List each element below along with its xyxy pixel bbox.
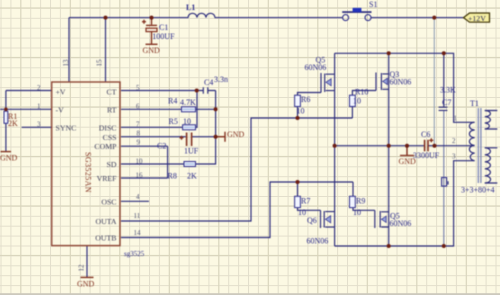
transformer T1 primary winding xyxy=(469,122,474,160)
wire R6 gate path xyxy=(298,93,322,96)
wire R5 bend xyxy=(196,91,198,128)
junction C1 top xyxy=(150,16,154,20)
svg-text:14: 14 xyxy=(134,229,142,237)
junction CT node xyxy=(195,89,199,93)
svg-text:2K: 2K xyxy=(8,119,18,128)
capacitor C6 xyxy=(424,140,426,152)
snubber component 10 xyxy=(442,178,447,187)
svg-text:60N06: 60N06 xyxy=(390,219,412,228)
svg-text:+12V: +12V xyxy=(468,14,486,23)
capacitor C1 xyxy=(146,24,157,26)
transistor Q3 upper right xyxy=(376,73,389,91)
svg-text:OSC: OSC xyxy=(101,197,116,206)
svg-text:GND: GND xyxy=(143,46,161,55)
svg-text:7: 7 xyxy=(136,121,140,129)
transformer T1 secondary lower winding xyxy=(485,148,491,183)
capacitor C4 xyxy=(203,87,208,94)
svg-text:2: 2 xyxy=(37,84,41,92)
svg-text:L1: L1 xyxy=(186,3,195,12)
resistor R8 xyxy=(184,162,196,167)
svg-text:12: 12 xyxy=(78,264,86,272)
svg-text:3.3n: 3.3n xyxy=(214,75,228,84)
wire bottom rail xyxy=(335,161,471,246)
junction snubber bottom xyxy=(442,244,446,248)
svg-text:OUTA: OUTA xyxy=(95,217,116,226)
svg-text:R8: R8 xyxy=(168,172,177,181)
svg-text:C2: C2 xyxy=(157,142,166,151)
svg-text:GND: GND xyxy=(399,157,417,166)
svg-text:4.7K: 4.7K xyxy=(180,98,196,107)
svg-text:R6: R6 xyxy=(301,95,310,104)
transformer T1 secondary upper winding xyxy=(485,111,491,130)
svg-text:R10: R10 xyxy=(355,88,368,97)
svg-text:VREF: VREF xyxy=(97,174,118,183)
svg-text:C4: C4 xyxy=(204,78,213,87)
wire SD row to R8 xyxy=(121,163,184,165)
wire VREF link vertical xyxy=(167,146,169,178)
transistor Q5 lower right xyxy=(375,210,389,228)
switch S1 xyxy=(343,15,349,21)
svg-text:CT: CT xyxy=(107,87,117,96)
capacitor C2 xyxy=(186,133,188,147)
junction center tap feed xyxy=(433,144,437,148)
wire R10 gate path xyxy=(352,91,376,96)
junction gate upper node xyxy=(296,116,300,120)
wire OUTB route xyxy=(121,182,353,238)
junction pin15 top xyxy=(104,16,108,20)
svg-text:C7: C7 xyxy=(442,98,451,107)
svg-text:4: 4 xyxy=(136,193,140,201)
svg-text:10: 10 xyxy=(353,208,361,217)
junction right leg top xyxy=(387,51,391,55)
svg-text:60N06: 60N06 xyxy=(390,78,412,87)
svg-text:10: 10 xyxy=(136,157,144,165)
junction R1 node xyxy=(4,108,8,112)
wire pin1 row xyxy=(0,108,52,110)
wire +12V feed down to center tap xyxy=(433,18,435,146)
junction GND mid rail xyxy=(405,144,409,148)
wire CSS row xyxy=(121,136,216,138)
resistor R6 xyxy=(295,95,301,106)
wire mid rail center tap xyxy=(335,145,471,147)
svg-text:60N06: 60N06 xyxy=(307,237,329,246)
wire OUTA route xyxy=(121,118,352,221)
junction snubber top xyxy=(442,51,446,55)
junction right leg bottom xyxy=(387,244,391,248)
svg-text:10: 10 xyxy=(298,208,306,217)
svg-text:sg3525: sg3525 xyxy=(124,250,145,258)
wire pin15 vertical xyxy=(105,18,107,82)
svg-text:11: 11 xyxy=(134,212,141,220)
resistor R9 xyxy=(350,196,356,207)
svg-text:R7: R7 xyxy=(301,197,310,206)
wire +12V top rail xyxy=(69,17,342,19)
wire R10 bottom stub xyxy=(351,107,353,119)
svg-text:10: 10 xyxy=(353,97,361,106)
svg-text:16: 16 xyxy=(136,171,144,179)
svg-text:5: 5 xyxy=(136,84,140,92)
svg-text:Q6: Q6 xyxy=(307,216,317,225)
op-amp U1 sg3525 IC body xyxy=(52,82,120,246)
svg-text:15: 15 xyxy=(96,59,104,67)
wire top rail right of switch xyxy=(371,17,463,19)
power flag +12V xyxy=(464,13,490,22)
svg-text:GND: GND xyxy=(0,154,18,163)
wire pin3 stub xyxy=(22,126,52,128)
svg-text:S1: S1 xyxy=(369,0,377,9)
svg-text:3+3+80+4: 3+3+80+4 xyxy=(461,186,495,195)
svg-text:+V: +V xyxy=(56,87,66,96)
svg-text:10: 10 xyxy=(183,117,191,126)
svg-text:3: 3 xyxy=(37,121,41,129)
svg-text:COMP: COMP xyxy=(94,142,117,151)
wire OSC stub xyxy=(121,200,149,202)
wire R6 bottom stub xyxy=(297,107,299,119)
wire COMP row xyxy=(121,145,168,147)
junction left leg mid xyxy=(333,144,337,148)
wire right leg xyxy=(388,53,390,246)
capacitor C7 xyxy=(439,107,448,110)
svg-text:T1: T1 xyxy=(470,99,479,108)
wire DISC row xyxy=(121,126,183,128)
svg-text:2: 2 xyxy=(452,137,456,145)
inductor L1 xyxy=(188,13,215,17)
junction +12V feed xyxy=(432,16,436,20)
svg-text:9: 9 xyxy=(137,139,141,147)
wire pin12 stub xyxy=(86,246,88,278)
wire CT row xyxy=(121,90,216,92)
svg-text:C6: C6 xyxy=(421,130,430,139)
junction RT node xyxy=(214,107,218,111)
ground port mid rail xyxy=(400,155,414,157)
svg-text:-V: -V xyxy=(56,105,65,114)
svg-text:C1: C1 xyxy=(159,23,168,32)
wire left leg xyxy=(334,53,336,246)
wire R1 branch xyxy=(5,91,7,152)
svg-text:OUTB: OUTB xyxy=(95,233,116,242)
wire pin2 row xyxy=(6,90,52,92)
junction gate lower node xyxy=(296,180,300,184)
svg-text:3: 3 xyxy=(452,153,456,161)
svg-text:SD: SD xyxy=(107,160,117,169)
svg-text:2K: 2K xyxy=(187,172,197,181)
svg-text:13: 13 xyxy=(62,59,70,67)
transformer T1 core xyxy=(478,108,481,183)
transistor Q6 lower left xyxy=(321,210,335,228)
svg-text:1: 1 xyxy=(37,103,41,111)
junction CSS node xyxy=(214,135,218,139)
resistor R7 xyxy=(295,196,301,207)
svg-text:R4: R4 xyxy=(168,97,177,106)
svg-text:CSS: CSS xyxy=(103,133,117,142)
svg-text:6: 6 xyxy=(136,103,140,111)
junction right leg mid xyxy=(387,144,391,148)
ground port pin 12 xyxy=(81,276,94,278)
svg-text:RT: RT xyxy=(107,105,117,114)
svg-text:DISC: DISC xyxy=(99,123,117,132)
wire R9 gate path xyxy=(353,208,375,211)
svg-text:GND: GND xyxy=(227,130,245,139)
svg-text:1: 1 xyxy=(454,115,458,123)
ground port near C2 xyxy=(216,132,225,142)
wire RT row xyxy=(121,108,216,110)
svg-text:10: 10 xyxy=(297,107,305,116)
resistor R4 xyxy=(182,107,196,112)
ground below C1 xyxy=(146,43,158,45)
svg-text:8: 8 xyxy=(137,129,141,137)
svg-text:R5: R5 xyxy=(169,117,178,126)
resistor R5 xyxy=(183,125,196,130)
svg-text:1UF: 1UF xyxy=(184,147,199,156)
wire VREF row xyxy=(121,177,168,179)
wire bridge top rail xyxy=(335,53,471,122)
svg-text:60N06: 60N06 xyxy=(305,63,327,72)
wire R7 top stub xyxy=(297,182,299,196)
svg-text:SG3525AN: SG3525AN xyxy=(84,152,93,193)
wire snubber vertical xyxy=(443,53,445,107)
wire C1 branch xyxy=(151,18,153,44)
wire R9 top stub xyxy=(352,182,354,196)
svg-text:3.3K: 3.3K xyxy=(440,86,456,95)
wire middle vertical column xyxy=(196,91,216,165)
svg-text:100UF: 100UF xyxy=(152,32,175,41)
resistor R1 xyxy=(4,111,8,123)
wire pin13 vertical xyxy=(68,18,70,82)
svg-text:SYNC: SYNC xyxy=(56,123,77,132)
wire R7 gate path xyxy=(298,208,321,211)
svg-text:R9: R9 xyxy=(356,197,365,206)
ground below R1 xyxy=(1,151,12,153)
transistor Q5 upper left xyxy=(321,73,335,93)
svg-text:GND: GND xyxy=(77,280,95,289)
svg-text:3300UF: 3300UF xyxy=(413,151,440,160)
wire GND stub mid rail xyxy=(406,146,408,156)
resistor R10 xyxy=(350,95,356,106)
